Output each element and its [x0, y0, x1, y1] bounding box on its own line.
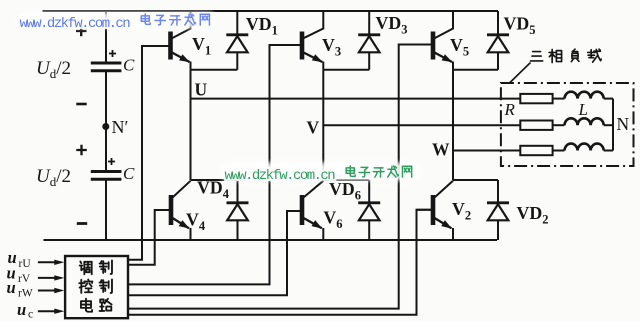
svg-text:www.dzkfw.com.cn: www.dzkfw.com.cn [20, 16, 131, 32]
wire: W branch to neutral [604, 150, 613, 152]
svg-text:N′: N′ [112, 117, 129, 137]
wire: V6/VD6 collector link [323, 179, 369, 181]
diode VD6 [358, 180, 380, 240]
polarity mark - (lower) [77, 222, 87, 225]
svg-text:L: L [578, 100, 588, 119]
resistor R (W branch) [520, 146, 552, 155]
leader line to label [510, 63, 531, 83]
load box (dash-dot frame) [501, 83, 634, 166]
wire: W branch R-L link [553, 150, 565, 152]
inductor L (W branch) [565, 144, 604, 151]
wire: U branch R-L link [553, 98, 565, 100]
input urV arrow [38, 277, 58, 279]
wire: V3/VD3 emitter junction [323, 69, 369, 71]
svg-text:rV: rV [18, 273, 31, 285]
wire: V1 drive line [128, 46, 168, 260]
resistor R (V branch) [520, 121, 552, 130]
wire: V branch to neutral [604, 124, 613, 126]
svg-text:V: V [307, 118, 320, 138]
capacitor C2 [91, 172, 122, 180]
node N' (midpoint dot) [102, 123, 109, 130]
input uc arrow [38, 310, 58, 312]
transistor V4 [155, 181, 191, 240]
inductor L (V branch) [565, 118, 604, 125]
wire: V5/VD5 emitter junction [453, 69, 498, 71]
diode VD5 [487, 11, 509, 70]
wire: W output line [453, 150, 520, 152]
watermark middle glow band [221, 163, 420, 181]
wire: V branch R-L link [553, 124, 565, 126]
diode VD4 [227, 180, 249, 240]
svg-text:R: R [504, 100, 516, 119]
transistor V5 [399, 11, 453, 70]
control box 调制控制电路 [65, 256, 128, 318]
wire: V4 drive line [128, 210, 169, 265]
diode VD3 [358, 11, 380, 70]
watermark top (blue) [20, 16, 131, 32]
wire: V5 drive line [128, 45, 431, 309]
watermark middle (green) [225, 168, 336, 184]
svg-text:W: W [432, 140, 450, 160]
svg-text:www.dzkfw.com.cn: www.dzkfw.com.cn [225, 168, 336, 184]
svg-text:N: N [617, 114, 630, 134]
capacitor C1 [91, 63, 122, 71]
wire: leg 2 vertical (V phase) [322, 70, 324, 180]
input urU arrow [38, 261, 58, 263]
wire: V3 drive line [128, 45, 300, 284]
transistor V6 [287, 181, 323, 240]
svg-text:U: U [195, 79, 208, 99]
wire: negative DC bus (bottom) [44, 239, 498, 241]
wire: leg 3 vertical (W phase) [452, 70, 454, 180]
wire: DC-link capacitor rail [105, 11, 107, 240]
watermark top glow band [17, 12, 215, 28]
wire: V1/VD1 emitter junction [191, 69, 238, 71]
wire: U branch to neutral [604, 98, 613, 100]
wire: positive DC bus (top) [43, 10, 499, 12]
diode VD1 [226, 11, 248, 70]
wire: V6 drive line [128, 211, 300, 295]
wire: neutral link vertical [612, 99, 614, 151]
wire: V2/VD2 collector link [453, 179, 498, 181]
polarity mark + (lower) [76, 145, 87, 155]
svg-text:rU: rU [19, 258, 32, 270]
svg-text:rW: rW [18, 288, 33, 300]
wire: U output line [191, 98, 521, 100]
svg-text:C: C [123, 164, 135, 183]
wire: V output line [323, 124, 520, 126]
wire: V2 drive line [128, 210, 431, 315]
transistor V1 [142, 11, 191, 70]
svg-text:c: c [28, 309, 33, 321]
svg-text:u: u [7, 278, 16, 297]
wire: V4/VD4 collector link [191, 179, 238, 181]
transistor V2 [417, 181, 454, 240]
polarity mark + (upper) [76, 26, 87, 36]
polarity mark - (upper) [76, 103, 86, 106]
svg-text:C: C [123, 56, 135, 75]
resistor R (U branch) [520, 94, 552, 103]
transistor V3 [270, 11, 324, 70]
input urW arrow [38, 290, 58, 292]
svg-text:u: u [17, 300, 26, 319]
diode VD2 [487, 180, 509, 240]
label 三相负载 (three-phase load) [531, 52, 543, 61]
wire: leg 1 vertical (U phase) [190, 70, 192, 180]
inductor L (U branch) [565, 92, 604, 99]
